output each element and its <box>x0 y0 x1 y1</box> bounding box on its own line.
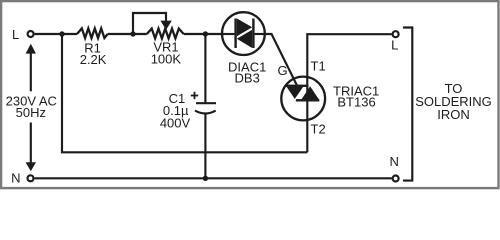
svg-text:T1: T1 <box>311 58 326 73</box>
svg-text:N: N <box>390 154 399 169</box>
svg-text:50Hz: 50Hz <box>16 105 46 120</box>
svg-text:400V: 400V <box>160 116 191 131</box>
svg-text:T2: T2 <box>311 122 326 137</box>
svg-text:100K: 100K <box>151 51 182 66</box>
svg-text:N: N <box>11 171 20 186</box>
svg-text:2.2K: 2.2K <box>80 52 107 67</box>
svg-text:L: L <box>391 38 398 53</box>
svg-text:IRON: IRON <box>437 107 470 122</box>
svg-text:BT136: BT136 <box>337 95 375 110</box>
svg-text:DB3: DB3 <box>235 71 260 86</box>
svg-text:G: G <box>277 63 287 78</box>
svg-text:L: L <box>12 27 19 42</box>
